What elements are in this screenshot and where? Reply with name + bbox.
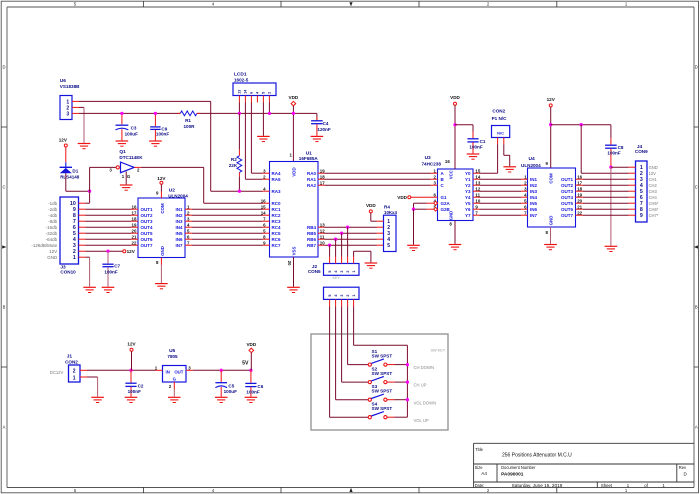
svg-text:Y1: Y1 bbox=[465, 177, 471, 182]
svg-text:5: 5 bbox=[387, 243, 390, 249]
svg-text:13: 13 bbox=[320, 222, 325, 227]
svg-text:VDD: VDD bbox=[450, 95, 460, 100]
svg-text:CH6*: CH6* bbox=[649, 207, 659, 212]
svg-text:IN1: IN1 bbox=[530, 177, 538, 182]
svg-text:21: 21 bbox=[577, 204, 582, 209]
title block bbox=[474, 443, 694, 488]
ground U2 bbox=[155, 283, 168, 285]
power 12V right bbox=[547, 97, 556, 107]
wire LCD pin6 to rail bbox=[268, 103, 270, 114]
ground J2 bbox=[365, 262, 378, 264]
svg-text:VS1838B: VS1838B bbox=[60, 84, 80, 89]
svg-text:RLS4148: RLS4148 bbox=[60, 175, 80, 180]
switch S2 SW SPST bbox=[368, 367, 427, 388]
svg-text:RC6: RC6 bbox=[272, 237, 281, 242]
svg-text:100nF: 100nF bbox=[469, 145, 482, 150]
svg-text:1: 1 bbox=[155, 365, 158, 370]
svg-text:5: 5 bbox=[74, 2, 77, 7]
svg-text:6: 6 bbox=[250, 92, 254, 94]
svg-text:2: 2 bbox=[524, 180, 527, 185]
ground C7 bbox=[102, 286, 115, 288]
svg-text:2: 2 bbox=[263, 174, 266, 179]
svg-text:12V: 12V bbox=[49, 249, 57, 254]
power VDD at U3 VCC bbox=[450, 95, 460, 105]
junction C3/rail bbox=[120, 112, 123, 115]
svg-text:2: 2 bbox=[346, 295, 350, 297]
svg-text:Y0: Y0 bbox=[465, 171, 471, 176]
svg-text:ULN2004: ULN2004 bbox=[168, 193, 188, 198]
wire junction up to Q1 input bbox=[89, 167, 91, 191]
wire J2 pin5 to ground bbox=[353, 251, 355, 256]
svg-text:IN2: IN2 bbox=[530, 183, 538, 188]
inversion bubbles G2A G2B bbox=[434, 201, 438, 205]
svg-text:PA090001: PA090001 bbox=[501, 471, 524, 477]
svg-text:4: 4 bbox=[187, 222, 190, 227]
svg-text:2: 2 bbox=[434, 174, 437, 179]
svg-text:A: A bbox=[441, 171, 445, 176]
svg-text:100uF: 100uF bbox=[224, 389, 237, 394]
junction C8/J4 GND bbox=[609, 166, 612, 169]
svg-text:1602-5: 1602-5 bbox=[234, 78, 249, 83]
switch S3 SW SPST bbox=[368, 384, 436, 405]
wire VDD to G1 bbox=[411, 196, 431, 198]
svg-text:RB4: RB4 bbox=[307, 225, 316, 230]
power 12V for D1 bbox=[59, 137, 68, 147]
svg-text:R4: R4 bbox=[384, 204, 390, 209]
power 12V at J3 bbox=[123, 249, 136, 254]
svg-text:-8db: -8db bbox=[48, 219, 58, 224]
svg-text:VDD: VDD bbox=[289, 95, 299, 100]
svg-text:22K: 22K bbox=[229, 163, 238, 168]
svg-text:4: 4 bbox=[334, 294, 338, 297]
svg-text:IN6: IN6 bbox=[530, 207, 538, 212]
svg-text:-1db: -1db bbox=[48, 201, 58, 206]
svg-text:RC2: RC2 bbox=[272, 213, 281, 218]
op-amp U1 16F685A (MCU) bbox=[261, 150, 326, 266]
svg-text:OUT3: OUT3 bbox=[561, 189, 573, 194]
junction C1 tap bbox=[453, 123, 456, 126]
svg-text:12V: 12V bbox=[59, 137, 68, 142]
ground C4 bbox=[311, 135, 324, 137]
svg-text:A: A bbox=[695, 425, 698, 430]
capacitor C7 100nF bbox=[102, 251, 120, 287]
svg-text:U4: U4 bbox=[529, 156, 535, 162]
junction RB4 riser bbox=[346, 226, 349, 229]
resistor network R4 10Kx4 bbox=[384, 204, 398, 251]
svg-text:VDD: VDD bbox=[366, 203, 376, 208]
svg-text:CON2: CON2 bbox=[492, 109, 505, 114]
connector J4 CON9 bbox=[629, 144, 659, 222]
svg-text:N/C: N/C bbox=[497, 131, 504, 136]
svg-text:3: 3 bbox=[340, 271, 344, 273]
junction C9/rail bbox=[154, 112, 157, 115]
switch enclosure box bbox=[311, 334, 448, 430]
wire branch to J4 pin2 bbox=[580, 125, 582, 174]
svg-text:IN5: IN5 bbox=[175, 231, 183, 236]
svg-text:Rev: Rev bbox=[679, 465, 687, 470]
svg-text:RA4: RA4 bbox=[272, 171, 281, 176]
power 12V for U2 bbox=[157, 176, 166, 184]
svg-text:RA1: RA1 bbox=[307, 177, 316, 182]
svg-text:Y3: Y3 bbox=[465, 189, 471, 194]
svg-text:5: 5 bbox=[74, 488, 77, 493]
svg-text:5: 5 bbox=[262, 92, 266, 94]
svg-text:Date:: Date: bbox=[475, 483, 485, 488]
svg-text:D: D bbox=[684, 472, 688, 477]
svg-text:OUT2: OUT2 bbox=[141, 213, 153, 218]
svg-text:9: 9 bbox=[546, 161, 549, 166]
wire U3 GND to ground bbox=[454, 221, 456, 244]
svg-text:GND: GND bbox=[160, 246, 165, 256]
wire J3 pin2 12V bbox=[86, 250, 123, 252]
junction LCD pin6 bbox=[268, 112, 271, 115]
svg-text:B: B bbox=[695, 305, 698, 310]
resistor R1 100R bbox=[178, 111, 200, 129]
svg-text:GND: GND bbox=[449, 211, 454, 220]
svg-text:2: 2 bbox=[187, 210, 190, 215]
svg-text:C: C bbox=[2, 185, 5, 190]
svg-text:3: 3 bbox=[524, 186, 527, 191]
svg-text:C4: C4 bbox=[323, 121, 329, 126]
wire U4 GND to ground bbox=[550, 227, 552, 244]
capacitor C2 100nF bbox=[125, 370, 144, 396]
svg-text:7: 7 bbox=[187, 240, 190, 245]
svg-text:VOL UP: VOL UP bbox=[414, 418, 429, 423]
wire Q1 output to RC0 bbox=[134, 166, 140, 168]
svg-text:IN2: IN2 bbox=[175, 213, 183, 218]
svg-text:C2: C2 bbox=[138, 383, 144, 388]
svg-text:IN3: IN3 bbox=[530, 189, 538, 194]
svg-text:J1: J1 bbox=[67, 353, 73, 359]
svg-text:12V: 12V bbox=[127, 342, 136, 347]
svg-text:1: 1 bbox=[625, 488, 628, 493]
svg-text:RB6: RB6 bbox=[307, 237, 316, 242]
svg-text:13: 13 bbox=[238, 90, 242, 94]
svg-text:1: 1 bbox=[434, 168, 437, 173]
junction C7 bbox=[106, 250, 109, 253]
svg-text:6: 6 bbox=[263, 222, 266, 227]
svg-text:100nF: 100nF bbox=[156, 132, 169, 137]
junction RB6 riser bbox=[334, 238, 337, 241]
svg-text:A: A bbox=[3, 425, 6, 430]
svg-text:-128dB/Mute: -128dB/Mute bbox=[31, 243, 57, 248]
svg-text:15: 15 bbox=[261, 204, 266, 209]
resistor R2 22K bbox=[229, 113, 242, 191]
svg-text:CH7*: CH7* bbox=[649, 213, 659, 218]
svg-text:4: 4 bbox=[334, 270, 338, 273]
wire LCD pin1 to rail/R2 bbox=[238, 103, 240, 114]
svg-text:RA3: RA3 bbox=[272, 189, 281, 194]
svg-text:CON10: CON10 bbox=[60, 270, 76, 275]
svg-text:ULN2004: ULN2004 bbox=[521, 163, 541, 168]
svg-text:12V: 12V bbox=[649, 171, 657, 176]
power VDD at U1 bbox=[289, 95, 299, 106]
svg-text:G1: G1 bbox=[441, 195, 448, 200]
svg-text:SW KEY: SW KEY bbox=[431, 349, 446, 353]
svg-text:8: 8 bbox=[263, 234, 266, 239]
wire D1 to junction bbox=[65, 173, 67, 191]
ground LCD pin5 bbox=[257, 135, 270, 137]
svg-text:3: 3 bbox=[66, 111, 69, 117]
svg-text:CH2: CH2 bbox=[649, 183, 658, 188]
svg-text:5V: 5V bbox=[242, 360, 249, 366]
wires U2 IN to U1 RC bbox=[192, 208, 263, 210]
svg-text:Document Number: Document Number bbox=[501, 465, 536, 470]
svg-text:OUT7: OUT7 bbox=[141, 243, 153, 248]
svg-text:4: 4 bbox=[524, 192, 527, 197]
svg-text:CON5: CON5 bbox=[308, 269, 321, 274]
svg-text:C7: C7 bbox=[114, 264, 120, 269]
svg-text:6: 6 bbox=[434, 192, 437, 197]
IR receiver U6 VS1838B bbox=[60, 78, 80, 120]
svg-text:Title: Title bbox=[475, 447, 483, 452]
wire U5 GND to ground bbox=[173, 389, 175, 397]
svg-text:OUT4: OUT4 bbox=[561, 195, 573, 200]
svg-text:1: 1 bbox=[290, 153, 293, 158]
svg-text:9: 9 bbox=[263, 240, 266, 245]
svg-text:16: 16 bbox=[132, 204, 137, 209]
svg-text:VCC: VCC bbox=[449, 170, 454, 179]
wire CON2 pin1 to Y0 bbox=[497, 144, 499, 173]
svg-text:2: 2 bbox=[487, 2, 490, 7]
junction S2 common bbox=[406, 380, 409, 383]
svg-text:G: G bbox=[127, 174, 131, 179]
svg-text:8: 8 bbox=[546, 230, 549, 235]
ground C9 bbox=[149, 140, 162, 142]
wire CON2 pin2 to ground bbox=[503, 144, 505, 155]
svg-text:SW SPST: SW SPST bbox=[372, 406, 393, 411]
svg-text:VSS: VSS bbox=[292, 247, 297, 256]
svg-text:5: 5 bbox=[263, 228, 266, 233]
svg-text:100uF: 100uF bbox=[125, 132, 138, 137]
svg-text:OUT2: OUT2 bbox=[561, 183, 573, 188]
svg-text:Y7: Y7 bbox=[465, 213, 471, 218]
connector J3 CON10 bbox=[31, 197, 85, 275]
svg-text:GND: GND bbox=[47, 255, 58, 260]
svg-text:100nF: 100nF bbox=[104, 269, 117, 274]
svg-text:16: 16 bbox=[577, 174, 582, 179]
wire J1 pin2 to U5 bbox=[87, 369, 156, 371]
svg-text:IN3: IN3 bbox=[175, 219, 183, 224]
svg-text:Y6: Y6 bbox=[465, 207, 471, 212]
wire LCD pin3 to RA4 bbox=[250, 103, 252, 174]
svg-text:3: 3 bbox=[434, 180, 437, 185]
svg-text:-64db: -64db bbox=[46, 237, 58, 242]
svg-text:12V: 12V bbox=[547, 97, 556, 102]
capacitor C9 100nF bbox=[150, 113, 169, 140]
svg-text:7: 7 bbox=[263, 216, 266, 221]
wires J2 risers to RB rows bbox=[347, 227, 349, 256]
svg-text:1: 1 bbox=[524, 174, 527, 179]
svg-text:-16db: -16db bbox=[46, 225, 58, 230]
svg-text:OUT5: OUT5 bbox=[141, 231, 153, 236]
svg-text:C: C bbox=[695, 185, 698, 190]
svg-text:VOL DOWN: VOL DOWN bbox=[414, 400, 437, 405]
svg-text:13: 13 bbox=[475, 180, 480, 185]
svg-text:12V: 12V bbox=[127, 249, 136, 254]
svg-text:10: 10 bbox=[475, 198, 480, 203]
svg-text:16: 16 bbox=[261, 198, 266, 203]
svg-text:CH4: CH4 bbox=[649, 195, 658, 200]
svg-text:RB7: RB7 bbox=[307, 243, 316, 248]
svg-text:7: 7 bbox=[524, 210, 527, 215]
wire VDD rail y=113.4 bbox=[79, 112, 180, 114]
transistor Q1 DTC114EK bbox=[109, 149, 143, 184]
svg-text:CH UP: CH UP bbox=[414, 383, 427, 388]
wire VDD to R4 pin1 bbox=[370, 213, 372, 221]
svg-text:15: 15 bbox=[475, 168, 480, 173]
svg-text:1: 1 bbox=[352, 271, 356, 273]
wire LCD pin2 to RA5 bbox=[244, 103, 246, 180]
junction node IR bbox=[88, 190, 91, 193]
svg-text:IN4: IN4 bbox=[175, 225, 183, 230]
svg-text:RA5: RA5 bbox=[272, 177, 281, 182]
svg-text:VDD: VDD bbox=[292, 167, 297, 176]
wire U2 GND to ground bbox=[160, 258, 162, 265]
svg-text:CON9: CON9 bbox=[635, 149, 648, 154]
svg-text:2: 2 bbox=[487, 488, 490, 493]
wire G2A G2B to ground bbox=[427, 202, 434, 204]
svg-text:G2A: G2A bbox=[441, 201, 451, 206]
junction G2 tie bbox=[412, 208, 415, 211]
svg-text:SW SPST: SW SPST bbox=[372, 354, 393, 359]
decoder U3 74HC238 bbox=[422, 155, 481, 226]
wires J3 pins9-3 to U2 OUT bbox=[86, 208, 132, 210]
wire 12V rail right bbox=[550, 107, 552, 168]
wire VDD to U1 pin1 bbox=[292, 106, 294, 162]
svg-text:100nF: 100nF bbox=[246, 390, 259, 395]
svg-text:KEY: KEY bbox=[333, 276, 341, 280]
svg-text:GND: GND bbox=[549, 216, 554, 226]
svg-text:-2db: -2db bbox=[48, 207, 58, 212]
wires U1 RB4-RB7 to R4 bbox=[325, 226, 377, 228]
svg-text:100nF: 100nF bbox=[607, 151, 620, 156]
connector J1 CON2 bbox=[50, 353, 87, 382]
wire U5 out to VDD bbox=[193, 369, 251, 371]
svg-text:OUT6: OUT6 bbox=[561, 207, 573, 212]
ground J3 pin1 bbox=[83, 286, 96, 288]
LCD1 1602-5 bbox=[233, 71, 276, 102]
svg-text:1: 1 bbox=[352, 295, 356, 297]
svg-text:100nF: 100nF bbox=[128, 389, 141, 394]
wire U1 VSS to ground bbox=[293, 257, 295, 287]
svg-text:8: 8 bbox=[449, 221, 452, 226]
svg-text:14: 14 bbox=[475, 174, 480, 179]
svg-text:100R: 100R bbox=[184, 124, 196, 129]
wires U1 RA0-RA2 to U3 ABC bbox=[325, 172, 431, 174]
svg-text:IN6: IN6 bbox=[175, 237, 183, 242]
svg-text:OUT5: OUT5 bbox=[561, 201, 573, 206]
svg-text:19: 19 bbox=[577, 192, 582, 197]
svg-text:OUT7: OUT7 bbox=[561, 213, 573, 218]
svg-text:GND: GND bbox=[649, 165, 658, 170]
wires U3 Y1-Y7 to U4 IN bbox=[480, 178, 522, 180]
svg-text:4: 4 bbox=[263, 186, 266, 191]
ground J1 bbox=[91, 396, 104, 398]
svg-text:C5: C5 bbox=[228, 383, 234, 388]
ground U6 pin2 bbox=[78, 143, 91, 145]
svg-text:18: 18 bbox=[577, 186, 582, 191]
capacitor C3 100uF bbox=[116, 113, 139, 140]
svg-text:11: 11 bbox=[320, 234, 325, 239]
connector J2 CON5 bbox=[308, 257, 359, 281]
svg-text:RC4: RC4 bbox=[272, 225, 281, 230]
ground C5 bbox=[215, 396, 228, 398]
junction LCD pin1 bbox=[238, 112, 241, 115]
svg-text:18: 18 bbox=[320, 174, 325, 179]
power 12V PSU bbox=[127, 342, 136, 352]
ground U5 bbox=[168, 396, 181, 398]
svg-text:RA0: RA0 bbox=[307, 171, 316, 176]
svg-text:9: 9 bbox=[640, 213, 643, 219]
svg-text:G2B: G2B bbox=[441, 207, 451, 212]
svg-text:20: 20 bbox=[132, 228, 137, 233]
svg-text:B: B bbox=[3, 305, 6, 310]
svg-text:4: 4 bbox=[212, 488, 215, 493]
svg-text:D1: D1 bbox=[72, 168, 78, 173]
wire J1 pin1 to ground bbox=[87, 376, 98, 378]
svg-text:Size: Size bbox=[475, 465, 484, 470]
svg-text:1: 1 bbox=[625, 2, 628, 7]
svg-text:IN1: IN1 bbox=[175, 207, 183, 212]
svg-text:Y4: Y4 bbox=[465, 195, 471, 200]
svg-text:SW SPST: SW SPST bbox=[372, 389, 393, 394]
svg-text:OUT3: OUT3 bbox=[141, 219, 153, 224]
ground U4 bbox=[544, 244, 557, 246]
svg-text:RC1: RC1 bbox=[272, 207, 281, 212]
svg-text:16F685A: 16F685A bbox=[299, 156, 319, 161]
wire GND chain to ground bbox=[610, 167, 612, 246]
svg-text:18: 18 bbox=[132, 216, 137, 221]
power VDD for R4 bbox=[366, 203, 376, 213]
svg-text:17: 17 bbox=[132, 210, 137, 215]
svg-text:14: 14 bbox=[244, 89, 248, 94]
svg-text:Sheet: Sheet bbox=[601, 483, 613, 488]
svg-text:7805: 7805 bbox=[167, 354, 178, 359]
wire J3 pin1 to ground bbox=[86, 256, 90, 258]
svg-text:DC12V: DC12V bbox=[50, 370, 64, 375]
svg-text:11: 11 bbox=[475, 192, 480, 197]
svg-text:10: 10 bbox=[320, 240, 325, 245]
ground C3 bbox=[116, 140, 129, 142]
ground Q1 bbox=[120, 184, 133, 186]
svg-text:2: 2 bbox=[268, 92, 272, 94]
svg-text:Y5: Y5 bbox=[465, 201, 471, 206]
connector header lower CON5 bbox=[324, 287, 360, 306]
svg-text:1: 1 bbox=[122, 174, 125, 179]
svg-text:IN7: IN7 bbox=[175, 243, 183, 248]
svg-text:COM: COM bbox=[160, 203, 165, 214]
ground C2 bbox=[125, 396, 138, 398]
svg-text:RC3: RC3 bbox=[272, 219, 281, 224]
svg-text:CH DOWN: CH DOWN bbox=[414, 365, 434, 370]
svg-text:22: 22 bbox=[132, 240, 137, 245]
switch S4 SW SPST bbox=[368, 402, 429, 423]
wire J3 pin10 to IR node bbox=[86, 202, 90, 204]
svg-text:VDD: VDD bbox=[397, 195, 407, 200]
svg-text:1: 1 bbox=[73, 255, 76, 261]
capacitor C4 120nF bbox=[311, 113, 331, 135]
svg-text:OUT4: OUT4 bbox=[141, 225, 153, 230]
svg-text:12V: 12V bbox=[157, 176, 166, 181]
svg-text:B: B bbox=[441, 177, 445, 182]
svg-text:20: 20 bbox=[287, 261, 292, 266]
capacitor C8 100nF bbox=[605, 125, 624, 168]
svg-text:RC0: RC0 bbox=[272, 201, 281, 206]
wire VDD to U3 VCC pin bbox=[454, 105, 456, 169]
capacitor C1 100nF bbox=[455, 125, 486, 154]
connector CON2 P1 N/C bbox=[492, 109, 510, 145]
